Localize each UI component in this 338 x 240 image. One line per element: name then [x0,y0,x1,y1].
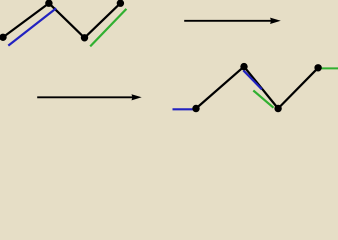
wire left segment 1 [3,3,49,37]
node R1 [192,105,199,112]
green bond left [90,9,126,47]
wire left segment 3 [85,3,121,38]
node R2 [240,63,247,70]
wire right segment 2 [244,67,278,109]
blue tail right [173,108,196,110]
wire left segment 2 [49,3,85,38]
wire right segment 3 [278,68,318,109]
node L3 [81,34,88,41]
node L4 [117,0,124,7]
arrow top [184,18,281,24]
green bond right [253,91,273,108]
blue bond right [243,70,261,89]
wire right segment 1 [196,67,244,109]
node R3 [274,105,281,112]
node R4 [314,64,321,71]
node L2 [45,0,52,7]
arrow bottom [37,94,142,100]
node L1 [0,34,7,41]
blue bond left [8,8,56,45]
green tail right [320,67,338,69]
